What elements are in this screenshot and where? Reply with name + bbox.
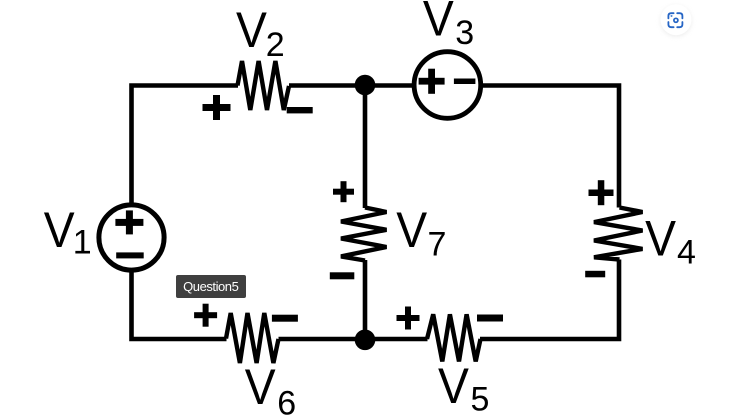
node junction top bbox=[355, 75, 376, 96]
svg-text:V: V bbox=[423, 0, 454, 46]
resistor V5 bbox=[427, 314, 481, 361]
polarity minus V6 bbox=[272, 315, 298, 322]
wire middle bottom bbox=[363, 260, 368, 339]
polarity minus V3 bbox=[454, 79, 476, 85]
resistor V7 bbox=[341, 208, 387, 261]
svg-text:4: 4 bbox=[677, 234, 696, 272]
polarity plus V7 bbox=[333, 189, 354, 195]
node junction bottom bbox=[355, 330, 376, 351]
polarity minus V7 bbox=[330, 272, 355, 279]
svg-text:V: V bbox=[396, 202, 427, 258]
svg-text:3: 3 bbox=[455, 14, 474, 52]
resistor V2 bbox=[238, 61, 290, 110]
svg-text:V: V bbox=[44, 202, 75, 258]
svg-text:7: 7 bbox=[428, 226, 447, 264]
wire top-right run bbox=[289, 86, 619, 208]
visual search icon button bbox=[660, 4, 691, 36]
svg-text:1: 1 bbox=[73, 224, 92, 262]
wire bottom-right run bbox=[480, 260, 619, 340]
svg-text:5: 5 bbox=[471, 381, 490, 417]
wire bottom middle bbox=[279, 337, 428, 342]
voltage source V1 bbox=[99, 205, 164, 270]
polarity plus V3 bbox=[419, 78, 445, 85]
resistor V4 bbox=[594, 208, 643, 260]
svg-text:V: V bbox=[245, 359, 276, 415]
voltage source V3 bbox=[414, 52, 481, 119]
polarity minus V4 bbox=[585, 271, 605, 278]
polarity plus V6 bbox=[194, 312, 217, 318]
svg-text:6: 6 bbox=[277, 384, 296, 417]
polarity minus V5 bbox=[477, 315, 503, 322]
polarity minus V2 bbox=[287, 107, 313, 113]
resistor V6 bbox=[226, 313, 279, 363]
polarity plus V5 bbox=[397, 315, 420, 321]
wire top-left / left / bottom-left run bbox=[132, 86, 239, 340]
svg-text:V: V bbox=[236, 2, 267, 58]
svg-text:V: V bbox=[438, 358, 469, 414]
svg-text:2: 2 bbox=[266, 26, 285, 64]
polarity minus V1 bbox=[116, 252, 144, 258]
tooltip Question5 bbox=[176, 275, 246, 298]
wire middle top bbox=[363, 86, 368, 209]
svg-text:V: V bbox=[645, 210, 676, 266]
polarity plus V1 bbox=[115, 219, 143, 226]
polarity plus V4 bbox=[589, 190, 614, 197]
polarity plus V2 bbox=[203, 104, 231, 111]
